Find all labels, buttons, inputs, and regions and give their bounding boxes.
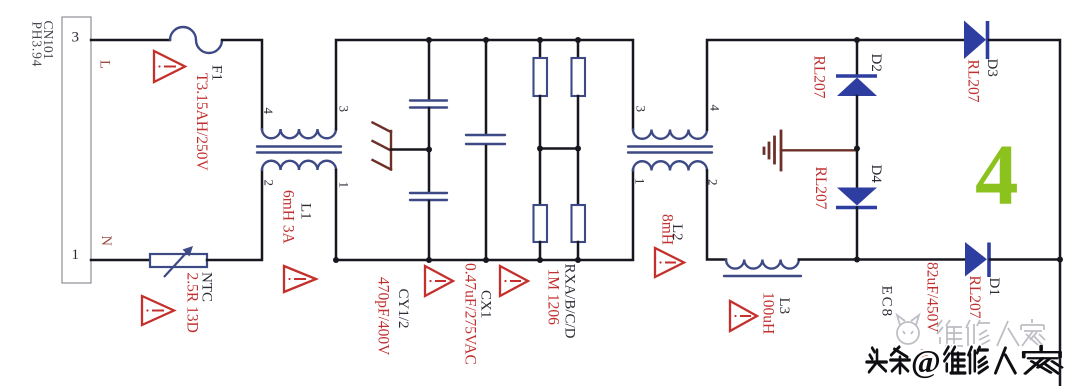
diode D4 RL207	[812, 165, 884, 210]
svg-text:1M 1206: 1M 1206	[545, 269, 562, 326]
wire CY bottom lead	[428, 201, 431, 260]
svg-text:8mH: 8mH	[659, 214, 676, 245]
svg-text:82uF/450V: 82uF/450V	[924, 262, 941, 333]
inductor L2 common-mode choke	[628, 105, 723, 246]
resistor labels RXA/B/C/D	[545, 264, 578, 339]
diode D3 RL207	[964, 21, 1000, 103]
wire CX bottom lead	[485, 146, 488, 260]
svg-text:4: 4	[975, 126, 1019, 223]
thermistor NTC	[150, 246, 215, 333]
connector CN101	[30, 17, 92, 283]
svg-text:6mH 3A: 6mH 3A	[280, 190, 297, 245]
inductor L3	[724, 260, 801, 335]
node junction dots RX middle	[537, 146, 543, 152]
capacitor CX1	[462, 135, 506, 365]
wire RX left top lead	[539, 40, 542, 58]
wire RX right bottom lead	[577, 242, 580, 260]
svg-text:RL207: RL207	[812, 167, 829, 210]
warning triangle near L3	[730, 301, 757, 331]
wire RX left middle	[539, 96, 542, 205]
svg-text:L3: L3	[776, 298, 792, 315]
wire RX right middle	[577, 96, 580, 205]
svg-text:D2: D2	[868, 54, 884, 72]
svg-text:@: @	[911, 343, 941, 379]
svg-text:EC8: EC8	[879, 286, 895, 319]
resistor RXD	[572, 205, 586, 242]
svg-text:RL207: RL207	[811, 56, 828, 99]
capacitor CY1/2 upper	[410, 101, 447, 108]
wire ground to D2 D4 midpoint	[781, 149, 857, 151]
light watermark logo	[897, 315, 1045, 346]
svg-text:CY1/2: CY1/2	[395, 289, 411, 329]
svg-text:4: 4	[708, 105, 723, 112]
wire CY top lead	[428, 40, 431, 100]
warning triangle near L1	[284, 266, 316, 292]
svg-text:1: 1	[337, 182, 352, 189]
capacitor CY1/2 lower	[375, 193, 448, 356]
inductor L1 common-mode choke	[257, 106, 352, 245]
wire L1 pin3 up and top rail to L2 pin3	[336, 40, 633, 129]
svg-text:RL207: RL207	[965, 60, 982, 103]
svg-text:0.47uF/275VAC: 0.47uF/275VAC	[462, 263, 479, 365]
node junction dot CY midpoint	[426, 147, 432, 153]
svg-text:RL207: RL207	[966, 276, 983, 319]
watermark text halo	[867, 346, 1062, 374]
svg-text:3: 3	[337, 106, 352, 113]
wire L1 pin1 down to bottom rail	[335, 170, 338, 260]
svg-text:T3.15AH/250V: T3.15AH/250V	[193, 73, 210, 172]
resistor RXC	[572, 58, 586, 96]
svg-text:4: 4	[261, 108, 276, 115]
node junction dots bottom rail	[426, 257, 432, 263]
warning triangle near L2	[655, 248, 684, 277]
wire between CY caps	[428, 108, 431, 192]
svg-text:D4: D4	[868, 165, 884, 184]
ground chassis symbol	[373, 123, 392, 170]
svg-text:PH3.94: PH3.94	[30, 22, 45, 68]
node junction dot D2 top	[854, 37, 860, 43]
node junction dot D4 bottom	[854, 257, 860, 263]
resistor RXB	[534, 205, 548, 242]
wire L3 to D1 along bottom rail	[799, 258, 964, 261]
svg-text:L: L	[97, 60, 113, 69]
svg-text:D1: D1	[986, 278, 1002, 296]
svg-text:L1: L1	[298, 203, 314, 220]
wire top rail from pin 3 to fuse	[91, 39, 170, 42]
wire CX top lead	[485, 40, 488, 133]
wire D4 to bottom rail	[856, 208, 859, 260]
svg-text:N: N	[98, 236, 114, 247]
wire L2 pin2 down and bottom rail to L3	[707, 171, 726, 260]
EC8 polarity mark	[916, 349, 928, 363]
svg-text:470pF/400V: 470pF/400V	[375, 277, 392, 356]
wire ground to CY midpoint	[391, 148, 429, 151]
node junction dots top rail	[426, 37, 432, 43]
warning triangle near CY	[425, 266, 453, 296]
resistor RXA	[534, 58, 548, 96]
wire fuse to L1 pin4	[222, 40, 262, 129]
svg-text:D3: D3	[984, 59, 1000, 77]
wire RX middle link	[540, 147, 578, 150]
wire bottom rail L1 to L2 pin1	[336, 170, 633, 260]
wire RX right top lead	[577, 40, 580, 58]
svg-text:RXA/B/C/D: RXA/B/C/D	[562, 264, 578, 339]
svg-text:3: 3	[634, 106, 649, 113]
wire top rail to D2	[856, 40, 859, 74]
wire RX left bottom lead	[539, 242, 542, 260]
wire D2 to D4	[856, 96, 859, 187]
ground earth symbol	[764, 131, 781, 170]
warning triangle near NTC	[142, 296, 174, 325]
fuse F1	[170, 27, 225, 172]
svg-text:CX1: CX1	[478, 290, 494, 318]
diode D2 RL207	[811, 54, 885, 99]
node junction dot bottom right	[1057, 257, 1063, 263]
node junction dot L1 pin1	[333, 257, 339, 263]
svg-text:3: 3	[72, 30, 80, 46]
warning triangle near F1	[154, 51, 185, 82]
wire bottom rail pin1 to NTC	[91, 259, 150, 262]
capacitor EC8 labels	[879, 262, 941, 333]
svg-text:1: 1	[633, 178, 648, 185]
warning triangle near CX	[500, 266, 528, 296]
wire NTC to L1 pin2	[207, 170, 262, 260]
svg-text:2.5R 13D: 2.5R 13D	[184, 273, 201, 333]
svg-text:1: 1	[72, 247, 80, 263]
svg-text:100uH: 100uH	[760, 292, 777, 334]
wire D3 to top right corner and right rail down	[989, 40, 1060, 386]
svg-text:2: 2	[262, 180, 277, 187]
wire D1 to right rail	[990, 258, 1060, 261]
diode D1 RL207	[965, 242, 1002, 319]
node junction dot mid rectifier	[854, 146, 860, 152]
wire L2 pin4 up and top rail to D3	[707, 40, 963, 130]
watermark text 头条@维修人家	[867, 346, 1062, 374]
